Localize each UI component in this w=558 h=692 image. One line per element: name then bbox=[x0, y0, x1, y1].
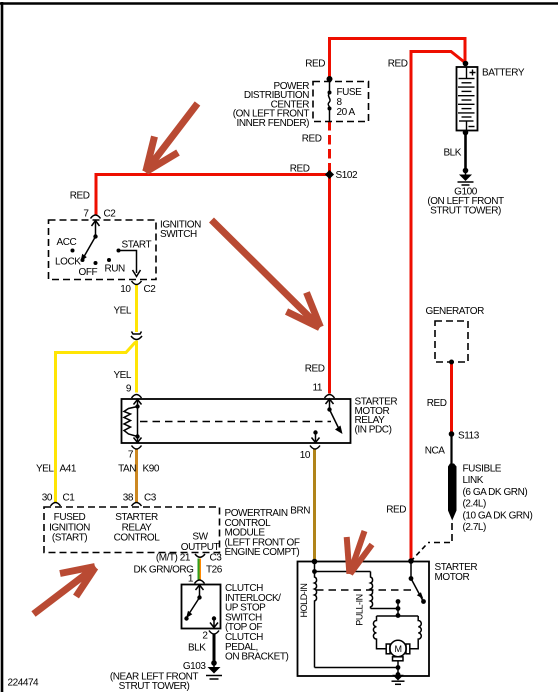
svg-text:A41: A41 bbox=[60, 464, 77, 475]
svg-text:PULL-IN: PULL-IN bbox=[355, 594, 365, 625]
svg-text:(2.4L): (2.4L) bbox=[463, 499, 487, 510]
svg-text:YEL: YEL bbox=[113, 306, 131, 317]
svg-text:BRN: BRN bbox=[290, 506, 310, 517]
svg-text:NCA: NCA bbox=[425, 446, 446, 457]
svg-text:RED: RED bbox=[388, 59, 408, 70]
svg-text:C3: C3 bbox=[144, 493, 157, 504]
svg-text:S102: S102 bbox=[336, 170, 358, 181]
svg-text:K90: K90 bbox=[143, 464, 160, 475]
svg-text:OFF: OFF bbox=[79, 267, 98, 278]
svg-text:STRUT TOWER): STRUT TOWER) bbox=[119, 681, 190, 692]
svg-text:M: M bbox=[394, 644, 401, 654]
svg-text:BLK: BLK bbox=[188, 643, 206, 654]
svg-text:RED: RED bbox=[427, 398, 447, 409]
svg-text:STRUT TOWER): STRUT TOWER) bbox=[430, 206, 501, 217]
svg-text:RED: RED bbox=[302, 134, 322, 145]
svg-text:INNER FENDER): INNER FENDER) bbox=[237, 118, 310, 129]
svg-text:C3: C3 bbox=[210, 553, 223, 564]
svg-text:BLK: BLK bbox=[443, 148, 461, 159]
svg-text:RED: RED bbox=[305, 364, 325, 375]
svg-text:T26: T26 bbox=[206, 565, 223, 576]
svg-text:(IN PDC): (IN PDC) bbox=[355, 424, 392, 435]
svg-text:7: 7 bbox=[128, 450, 134, 461]
svg-text:RED: RED bbox=[290, 164, 310, 175]
svg-text:BATTERY: BATTERY bbox=[482, 68, 525, 79]
svg-text:GENERATOR: GENERATOR bbox=[426, 306, 485, 317]
svg-text:LINK: LINK bbox=[463, 475, 484, 486]
svg-text:RUN: RUN bbox=[105, 264, 126, 275]
svg-text:LOCK: LOCK bbox=[55, 257, 81, 268]
svg-text:11: 11 bbox=[313, 383, 323, 394]
svg-text:YEL: YEL bbox=[36, 464, 54, 475]
svg-text:S113: S113 bbox=[458, 431, 480, 442]
svg-text:2: 2 bbox=[202, 631, 208, 642]
svg-text:DK GRN/ORG: DK GRN/ORG bbox=[134, 565, 195, 576]
svg-text:MOTOR: MOTOR bbox=[435, 572, 470, 583]
svg-text:20 A: 20 A bbox=[337, 107, 356, 118]
svg-text:(10 GA DK GRN): (10 GA DK GRN) bbox=[463, 510, 533, 521]
svg-text:38: 38 bbox=[123, 493, 134, 504]
svg-text:10: 10 bbox=[300, 450, 311, 461]
svg-text:7: 7 bbox=[83, 209, 89, 220]
svg-text:RED: RED bbox=[70, 191, 90, 202]
svg-text:HOLD-IN: HOLD-IN bbox=[299, 584, 309, 618]
svg-text:C2: C2 bbox=[104, 209, 117, 220]
svg-text:START: START bbox=[122, 240, 152, 251]
svg-text:TAN: TAN bbox=[118, 464, 136, 475]
svg-text:(M/T) 21: (M/T) 21 bbox=[156, 553, 191, 564]
svg-text:CONTROL: CONTROL bbox=[114, 533, 161, 544]
svg-text:(6 GA DK GRN): (6 GA DK GRN) bbox=[463, 487, 528, 498]
svg-text:RED: RED bbox=[386, 505, 406, 516]
svg-text:ENGINE COMPT): ENGINE COMPT) bbox=[225, 547, 300, 558]
svg-text:224474: 224474 bbox=[8, 678, 40, 689]
svg-text:C2: C2 bbox=[144, 284, 157, 295]
svg-text:(2.7L): (2.7L) bbox=[463, 522, 487, 533]
svg-text:C1: C1 bbox=[63, 493, 76, 504]
svg-text:ON BRACKET): ON BRACKET) bbox=[225, 652, 289, 663]
svg-text:30: 30 bbox=[42, 493, 53, 504]
svg-text:G103: G103 bbox=[183, 661, 207, 672]
svg-text:YEL: YEL bbox=[113, 370, 131, 381]
svg-text:FUSIBLE: FUSIBLE bbox=[463, 464, 502, 475]
svg-text:(START): (START) bbox=[52, 533, 87, 544]
svg-text:OUTPUT: OUTPUT bbox=[181, 542, 220, 553]
svg-text:10: 10 bbox=[120, 284, 131, 295]
svg-text:1: 1 bbox=[188, 574, 194, 585]
svg-text:9: 9 bbox=[126, 384, 132, 395]
svg-text:SWITCH: SWITCH bbox=[160, 229, 197, 240]
svg-text:RED: RED bbox=[305, 59, 325, 70]
svg-text:ACC: ACC bbox=[57, 237, 77, 248]
